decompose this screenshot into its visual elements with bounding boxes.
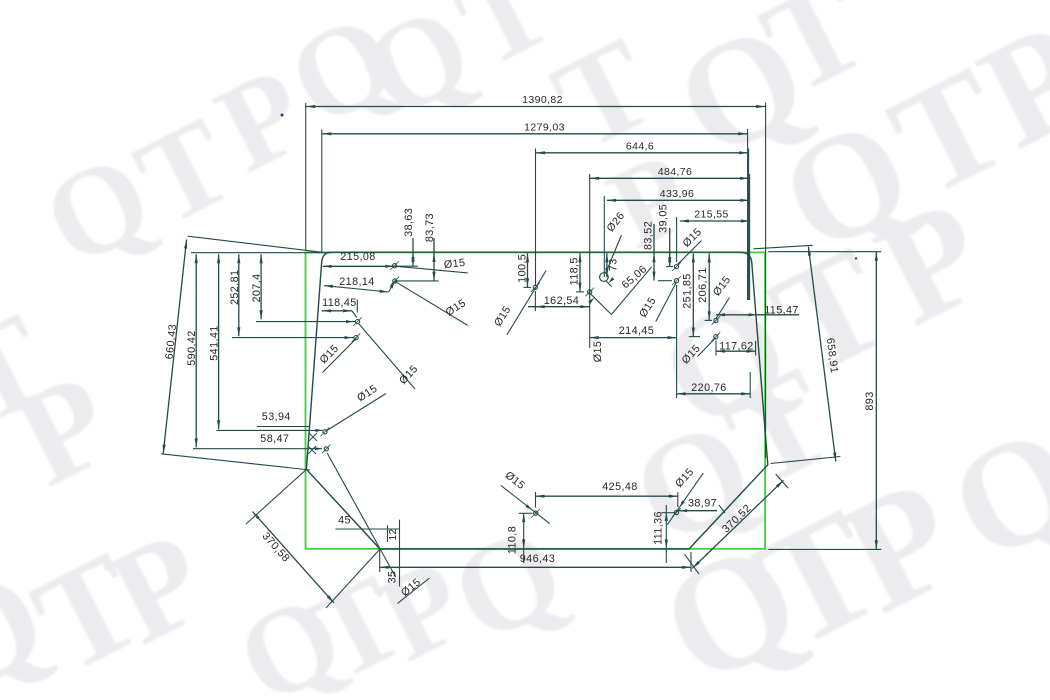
leader D15 hole R3 xyxy=(716,298,730,320)
dimension 206,71 xyxy=(708,254,710,321)
dimension 946,43 xyxy=(379,550,381,572)
dimension 58,47 xyxy=(193,448,322,450)
svg-text:433,96: 433,96 xyxy=(660,188,695,200)
svg-text:206,71: 206,71 xyxy=(697,267,709,302)
dimension 658,91 right edge length xyxy=(808,247,835,462)
svg-text:215,55: 215,55 xyxy=(694,209,729,221)
extension from holes R1R2 down xyxy=(676,285,678,398)
svg-text:111,36: 111,36 xyxy=(653,511,665,545)
svg-text:Ø15: Ø15 xyxy=(443,257,466,271)
notch vertical long xyxy=(399,520,401,587)
extension line 1279 right xyxy=(747,129,749,300)
glass panel outline xyxy=(306,252,767,549)
dimension 118,5 xyxy=(579,253,581,291)
connector to hole L1 xyxy=(256,321,356,323)
svg-text:53,94: 53,94 xyxy=(262,411,291,423)
underline D15 BL2 xyxy=(398,578,430,604)
dimension 370,52 xyxy=(692,480,783,568)
dimension 590,42 xyxy=(195,254,197,447)
svg-text:425,48: 425,48 xyxy=(602,481,637,493)
svg-text:644,6: 644,6 xyxy=(626,140,654,152)
dimension 207,4 xyxy=(260,254,262,319)
svg-text:117,62: 117,62 xyxy=(719,340,754,352)
dimension 214,45 xyxy=(590,337,677,339)
dimension 425,48 xyxy=(535,492,537,508)
hole C26 D26 xyxy=(600,273,609,282)
leader D15 hole R1 xyxy=(678,241,702,265)
dimension 218,14 xyxy=(324,286,389,292)
tick to hole R4 xyxy=(689,336,700,338)
dimension 893 right height xyxy=(875,252,877,550)
svg-text:38,63: 38,63 xyxy=(403,208,415,237)
dimension 370,58 xyxy=(253,512,335,604)
svg-text:162,54: 162,54 xyxy=(544,295,579,307)
tick lines through holes h1 h2 xyxy=(395,265,418,267)
dimension 215,55 xyxy=(680,220,750,222)
dimension 644,6 xyxy=(536,152,748,154)
extension line 1279 left xyxy=(321,130,323,253)
tick to hole R3 xyxy=(705,319,713,321)
leader D15 hole BL1 xyxy=(326,394,386,432)
svg-text:118,5: 118,5 xyxy=(568,257,580,285)
leader D15 h1 xyxy=(395,266,468,273)
notch vertical short xyxy=(387,525,389,542)
leader D15 hole BM1 xyxy=(501,486,550,524)
dimension 215,08 xyxy=(323,265,395,267)
hole h2 D15 xyxy=(393,279,397,283)
extension right cluster xyxy=(748,149,750,301)
svg-text:893: 893 xyxy=(864,391,876,410)
svg-text:207,4: 207,4 xyxy=(251,273,263,302)
hole BL2 D15 xyxy=(324,447,328,451)
svg-text:100,5: 100,5 xyxy=(516,254,528,283)
extension line 644 left xyxy=(535,149,537,287)
svg-text:Ø15: Ø15 xyxy=(592,341,604,363)
svg-text:590,42: 590,42 xyxy=(186,330,198,365)
extension line 1390 left xyxy=(305,103,307,250)
extension chamfer BR 2 xyxy=(776,474,789,488)
hole R2 D15 xyxy=(674,279,678,283)
dimension 484,76 xyxy=(590,177,749,179)
extension line 484 left xyxy=(589,174,591,348)
dimension 115,47 xyxy=(716,314,799,316)
svg-text:484,76: 484,76 xyxy=(658,166,693,178)
svg-text:12: 12 xyxy=(388,529,399,541)
dimension 541,41 xyxy=(218,254,220,429)
dimension 83,73 xyxy=(433,238,435,281)
hole L1 D15 xyxy=(355,320,359,324)
svg-text:218,14: 218,14 xyxy=(339,276,374,288)
dimension 111,36 xyxy=(665,505,667,563)
dimension 660,43 xyxy=(163,240,186,454)
svg-text:1279,03: 1279,03 xyxy=(524,121,565,133)
extension horizontal top-left xyxy=(191,252,331,254)
dimension 433,96 xyxy=(607,199,750,201)
hole M2 D15 xyxy=(588,290,592,294)
green glass outline rectangle xyxy=(306,252,766,548)
svg-text:1390,82: 1390,82 xyxy=(522,94,563,106)
svg-text:110,8: 110,8 xyxy=(507,526,519,554)
hole BL1 D15 xyxy=(323,430,327,434)
leader D15 hole L2 xyxy=(323,338,357,372)
connector to hole L2 xyxy=(232,337,355,339)
dimension 38,63 xyxy=(412,238,414,266)
underline 53,94 xyxy=(257,426,310,428)
cross ticks near BL holes xyxy=(309,433,317,441)
hole BM2 D15 xyxy=(674,510,678,514)
dimension 39,05 xyxy=(669,228,671,266)
svg-text:38,97: 38,97 xyxy=(688,498,717,510)
dimension 118,45 xyxy=(322,310,352,312)
svg-text:58,47: 58,47 xyxy=(260,433,289,445)
dimension 1279,03 xyxy=(322,133,747,135)
extension slant top for 658,91 xyxy=(754,245,813,249)
svg-text:215,08: 215,08 xyxy=(340,251,375,263)
leader label D26 xyxy=(606,235,622,274)
leader D15 hole L1 xyxy=(359,324,415,389)
extension line top right for 893 xyxy=(768,251,881,253)
dimension 38,97 xyxy=(678,510,717,512)
extension line 433 left xyxy=(603,196,605,277)
leader D15 hole R4 xyxy=(698,338,716,357)
dimension 53,94 xyxy=(217,429,323,431)
dimension 110,8 xyxy=(523,513,525,563)
leader D15 for hole M1 xyxy=(507,270,546,335)
svg-text:214,45: 214,45 xyxy=(619,325,654,337)
extension slant bottom for 658,91 xyxy=(771,457,841,464)
svg-text:118,45: 118,45 xyxy=(322,297,357,309)
extension line 1390 right xyxy=(765,103,767,459)
svg-text:115,47: 115,47 xyxy=(764,304,799,316)
leader D15 hole BL2 xyxy=(327,453,396,577)
dimension 162,54 xyxy=(534,291,536,311)
svg-text:39,05: 39,05 xyxy=(657,204,669,233)
extension right cluster2 xyxy=(749,174,751,300)
dimension 117,62 xyxy=(715,341,717,356)
dimension 83,52 xyxy=(653,224,655,281)
leader D15 hole R2 xyxy=(656,283,676,322)
hole h1 D15 xyxy=(392,264,396,268)
hole BM1 D15 xyxy=(534,511,538,515)
dimension 65,06 xyxy=(590,293,612,314)
svg-text:45: 45 xyxy=(338,515,351,527)
svg-text:251,85: 251,85 xyxy=(681,273,693,308)
stray dots xyxy=(281,114,284,117)
svg-text:252,81: 252,81 xyxy=(229,270,241,305)
dimension 220,76 xyxy=(749,372,751,398)
extension chamfer BL 1 xyxy=(246,470,306,525)
leader D15 hole BM2 xyxy=(667,473,703,525)
svg-text:83,73: 83,73 xyxy=(424,213,436,242)
svg-text:220,76: 220,76 xyxy=(691,382,726,394)
extension line bottom right for 893 xyxy=(768,548,881,550)
leader D15 h2 xyxy=(395,281,468,325)
dimension 73 xyxy=(606,253,608,277)
hole L2 D15 xyxy=(354,336,358,340)
hole R3 D15 xyxy=(714,318,718,322)
hole R4 D15 xyxy=(714,335,718,339)
svg-text:83,52: 83,52 xyxy=(642,221,654,250)
dimension 252,81 xyxy=(238,254,240,336)
dimension 1390,82 overall width xyxy=(306,106,765,108)
hole M1 D15 xyxy=(533,285,537,289)
svg-text:541,41: 541,41 xyxy=(209,325,221,360)
extension slanted top edge line xyxy=(188,236,322,252)
extension line 215,55 left xyxy=(676,217,678,262)
line to corner from 660 dim xyxy=(161,454,310,470)
svg-text:35: 35 xyxy=(387,571,399,584)
extension chamfer BR 1 xyxy=(685,554,700,574)
dimension 251,85 xyxy=(692,254,694,337)
dimension 100,5 xyxy=(527,253,529,287)
extension chamfer BL 2 xyxy=(326,549,380,608)
hole R1 D15 xyxy=(674,265,678,269)
dimension 45 xyxy=(336,528,400,530)
svg-text:946,43: 946,43 xyxy=(520,553,555,565)
